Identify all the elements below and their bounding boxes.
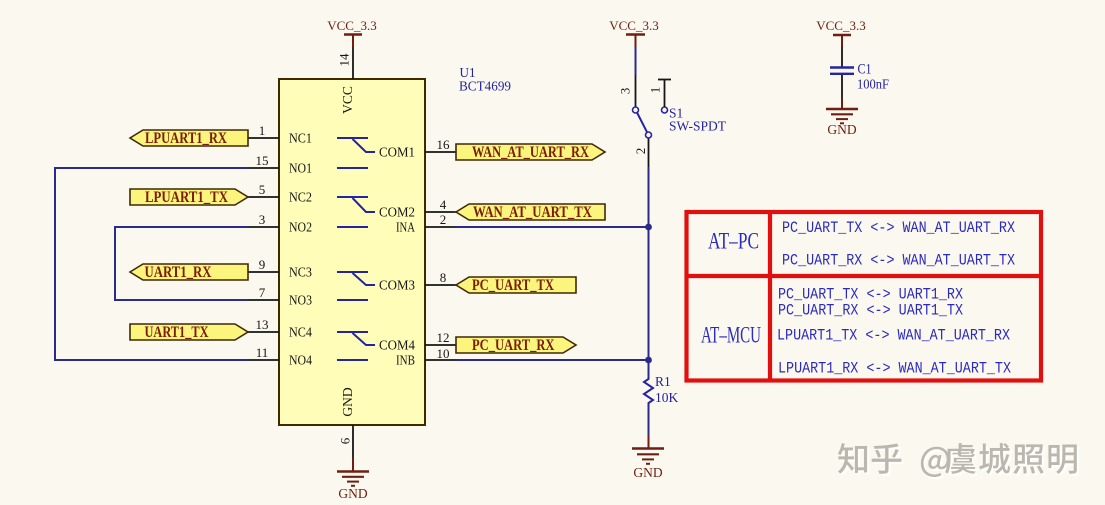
net label UART1_RX — [130, 264, 248, 281]
switch element 3 inside U1 (NC3/NO3->COM3) — [337, 272, 375, 300]
table frame (mode truth table) — [687, 212, 1042, 381]
wire NO2 to NO3 (pins 3-7) — [115, 227, 248, 300]
svg-text:GND: GND — [633, 465, 662, 480]
svg-text:5: 5 — [259, 182, 266, 197]
pin 9 (NC3) — [248, 257, 312, 280]
svg-text:NO4: NO4 — [289, 353, 312, 368]
capacitor C1 — [830, 47, 854, 99]
svg-text:LPUART1_TX <-> WAN_AT_UART_RX: LPUART1_TX <-> WAN_AT_UART_RX — [777, 327, 1011, 345]
svg-text:13: 13 — [256, 317, 269, 332]
svg-text:6: 6 — [338, 437, 353, 444]
svg-text:LPUART1_RX: LPUART1_RX — [145, 130, 228, 147]
svg-text:8: 8 — [440, 270, 447, 285]
ground symbol under R1 — [632, 435, 664, 480]
svg-text:PC_UART_RX: PC_UART_RX — [472, 337, 555, 354]
svg-text:COM4: COM4 — [379, 338, 415, 353]
svg-text:11: 11 — [256, 345, 269, 360]
wire VCC to S1 pin 3 — [635, 47, 637, 75]
svg-text:VCC_3.3: VCC_3.3 — [327, 18, 376, 33]
pin 3 (NO2) — [248, 212, 312, 235]
pin 14 (VCC) — [337, 47, 354, 79]
pin 16 (COM1) — [379, 137, 456, 160]
svg-text:1: 1 — [648, 87, 663, 94]
svg-text:LPUART1_TX: LPUART1_TX — [145, 189, 229, 206]
pin 1 (NC1) — [248, 123, 312, 146]
svg-text:10K: 10K — [655, 390, 679, 405]
svg-text:VCC: VCC — [340, 86, 355, 114]
svg-text:NO2: NO2 — [289, 220, 312, 235]
svg-text:LPUART1_RX <-> WAN_AT_UART_TX: LPUART1_RX <-> WAN_AT_UART_TX — [778, 360, 1012, 378]
S1 pin 2 stub — [648, 138, 650, 167]
svg-text:PC_UART_RX <-> WAN_AT_UART_TX: PC_UART_RX <-> WAN_AT_UART_TX — [782, 252, 1016, 270]
svg-text:VCC_3.3: VCC_3.3 — [816, 18, 865, 33]
svg-text:16: 16 — [437, 137, 451, 152]
pin 15 (NO1) — [248, 153, 312, 176]
IC U1 BCT4699 quad analog switch body — [279, 79, 425, 425]
svg-text:12: 12 — [437, 330, 450, 345]
svg-text:SW-SPDT: SW-SPDT — [669, 119, 727, 134]
ground symbol under C1 — [826, 99, 858, 137]
net label UART1_TX — [130, 324, 248, 341]
resistor R1 — [644, 377, 653, 435]
power flag VCC_3.3 (over C1) — [816, 18, 865, 47]
pin 10 (INB) — [396, 346, 456, 368]
power flag VCC_3.3 (over U1 pin 14) — [327, 18, 376, 47]
svg-text:PC_UART_RX <-> UART1_TX: PC_UART_RX <-> UART1_TX — [778, 302, 964, 320]
watermark text (knowledge site watermark) — [838, 443, 1079, 479]
svg-text:COM2: COM2 — [379, 205, 415, 220]
svg-text:WAN_AT_UART_TX: WAN_AT_UART_TX — [473, 204, 593, 221]
wire INA (pin 2) to switch net — [456, 226, 649, 228]
svg-text:INA: INA — [396, 220, 415, 235]
wire S1 common down to R1 — [648, 167, 650, 377]
net label WAN_AT_UART_RX — [456, 144, 605, 161]
power flag VCC_3.3 (over S1) — [609, 18, 658, 47]
svg-text:9: 9 — [259, 257, 266, 272]
ground symbol under U1 pin 6 — [337, 457, 369, 501]
wire INB (pin 10) to switch net — [456, 359, 649, 361]
svg-text:PC_UART_TX <-> WAN_AT_UART_RX: PC_UART_TX <-> WAN_AT_UART_RX — [782, 219, 1016, 237]
switch element 2 inside U1 (NC2/NO2->COM2) — [337, 197, 375, 227]
svg-text:COM3: COM3 — [379, 278, 415, 293]
svg-text:3: 3 — [259, 212, 266, 227]
S1 pin 1 stub — [648, 80, 672, 108]
svg-text:NC3: NC3 — [289, 265, 312, 280]
junction node INB — [645, 357, 652, 364]
svg-text:NC1: NC1 — [289, 131, 312, 146]
svg-text:10: 10 — [437, 346, 450, 361]
svg-text:NO3: NO3 — [289, 293, 312, 308]
svg-text:GND: GND — [340, 387, 355, 416]
svg-text:NO1: NO1 — [289, 161, 312, 176]
svg-text:BCT4699: BCT4699 — [459, 80, 511, 95]
svg-text:14: 14 — [337, 53, 352, 67]
pin 6 (GND) — [338, 425, 354, 457]
svg-text:100nF: 100nF — [857, 77, 889, 92]
svg-text:GND: GND — [827, 122, 856, 137]
net label PC_UART_RX — [456, 337, 576, 354]
svg-text:1: 1 — [259, 123, 266, 138]
svg-text:15: 15 — [256, 153, 269, 168]
pin 2 (INA) — [396, 212, 456, 235]
svg-text:UART1_TX: UART1_TX — [145, 324, 210, 341]
svg-text:COM1: COM1 — [379, 145, 415, 160]
pin 8 (COM3) — [379, 270, 456, 293]
switch element 1 inside U1 (NC1/NO1->COM1) — [337, 138, 375, 168]
svg-text:WAN_AT_UART_RX: WAN_AT_UART_RX — [472, 144, 590, 161]
svg-text:R1: R1 — [655, 374, 671, 389]
svg-text:NC2: NC2 — [289, 190, 312, 205]
svg-text:UART1_RX: UART1_RX — [145, 264, 213, 281]
junction node INA — [645, 224, 652, 231]
S1 pin 3 stub — [635, 75, 637, 107]
svg-text:INB: INB — [396, 353, 415, 368]
svg-text:2: 2 — [633, 148, 648, 155]
pin 4 (COM2) — [379, 197, 456, 220]
switch element 4 inside U1 (NC4/NO4->COM4) — [337, 332, 375, 360]
pin 12 (COM4) — [379, 330, 456, 353]
pin 11 (NO4) — [248, 345, 312, 368]
switch S1 (SW-SPDT) — [633, 107, 668, 138]
net label LPUART1_TX — [130, 189, 248, 206]
pin 5 (NC2) — [248, 182, 312, 205]
svg-text:AT–MCU: AT–MCU — [701, 323, 761, 349]
svg-text:7: 7 — [259, 285, 266, 300]
pin 7 (NO3) — [248, 285, 312, 308]
svg-text:GND: GND — [338, 486, 367, 501]
svg-text:2: 2 — [440, 212, 447, 227]
net label PC_UART_TX — [456, 277, 576, 294]
svg-text:C1: C1 — [858, 62, 872, 78]
svg-text:AT–PC: AT–PC — [708, 229, 759, 255]
svg-text:NC4: NC4 — [289, 325, 312, 340]
svg-text:3: 3 — [618, 88, 633, 95]
svg-text:VCC_3.3: VCC_3.3 — [609, 18, 658, 33]
net label WAN_AT_UART_TX — [456, 204, 605, 221]
svg-text:PC_UART_TX: PC_UART_TX — [472, 277, 555, 294]
svg-text:4: 4 — [440, 197, 447, 212]
wire NO1 to NO4 (pins 15-11) — [55, 168, 248, 360]
pin 13 (NC4) — [248, 317, 312, 340]
net label LPUART1_RX — [130, 130, 248, 147]
